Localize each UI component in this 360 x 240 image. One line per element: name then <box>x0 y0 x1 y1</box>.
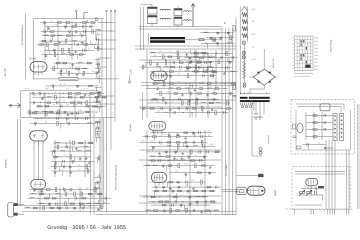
wire in output stage <box>166 182 168 187</box>
phono resistor 2 <box>306 190 312 196</box>
centre bus 5 <box>235 18 237 215</box>
capacitor (vertical) in output stage <box>180 205 183 208</box>
coil in left column <box>96 28 101 31</box>
junction node in IF amplifier lower <box>166 112 167 113</box>
resistor in IF amplifier <box>194 71 198 73</box>
coil in AF bottom <box>25 206 30 209</box>
wire in left column <box>96 64 98 69</box>
ground in ratio detector <box>206 68 209 71</box>
svg-text:30pF: 30pF <box>45 87 50 90</box>
svg-text:MW und UKW abgeschirmt: MW und UKW abgeschirmt <box>115 165 118 190</box>
tone unit left part 1 <box>293 124 296 129</box>
coil in AF driver <box>151 155 156 158</box>
ground in UKW tuner lower <box>76 73 79 76</box>
resistor (vertical) in left column lower <box>98 156 100 160</box>
resistor in UKW tuner lower <box>63 62 67 64</box>
wire in IF amplifier <box>140 66 215 68</box>
capacitor in left column <box>97 38 99 41</box>
svg-text:25k: 25k <box>149 64 152 67</box>
wire in left column <box>95 36 97 40</box>
capacitor (vertical) in AF middle <box>69 166 72 169</box>
resistor in FM IF block <box>37 105 41 107</box>
svg-text:8n: 8n <box>53 103 55 106</box>
ground in FM IF block <box>41 97 44 100</box>
svg-text:470k: 470k <box>78 109 82 112</box>
centre bus 2 <box>225 28 227 215</box>
table row tick 9 <box>293 64 295 66</box>
capacitor (vertical) in AF middle <box>53 151 56 154</box>
tone row 2 resistor <box>313 122 317 124</box>
capacitor in UKW tuner <box>82 25 84 28</box>
junction node in AF driver <box>168 160 169 161</box>
tube EF89 grids <box>154 73 165 79</box>
heater chain right wire <box>243 45 245 83</box>
dial lamp circle 1 <box>242 41 245 44</box>
ground in AF driver <box>168 133 171 136</box>
resistor (vertical) in AF bottom <box>43 206 45 210</box>
voltage selector contact 1 <box>241 105 243 107</box>
phono tube dark anode <box>318 186 324 188</box>
voltage selector pin 2 <box>242 103 244 105</box>
resistor in output stage <box>206 210 210 212</box>
resistor in AF driver <box>191 160 195 162</box>
capacitor (vertical) in IF amplifier lower <box>213 99 216 102</box>
svg-text:100: 100 <box>195 69 198 72</box>
resistor (vertical) in IF amplifier lower <box>182 101 184 105</box>
coil in output stage <box>201 195 206 198</box>
capacitor in UKW tuner <box>90 25 92 28</box>
tuner bottom label box <box>59 77 78 80</box>
svg-text:EABC80: EABC80 <box>5 158 8 168</box>
FM block vertical wire 5 <box>89 92 91 117</box>
ground in IF amplifier <box>152 71 155 74</box>
resistor in AF driver <box>167 142 171 144</box>
wire in IF amplifier <box>149 52 208 54</box>
table row tick 3 <box>293 43 295 45</box>
capacitor in AF bottom <box>105 197 107 200</box>
fuse circle 2 <box>243 85 245 87</box>
wire in left column <box>98 59 100 64</box>
capacitor in IF amplifier lower <box>179 98 181 101</box>
AF middle vertical wire 2 <box>69 140 71 177</box>
svg-text:220: 220 <box>191 179 194 182</box>
wire in IF amplifier lower <box>202 108 204 113</box>
wire in left column <box>97 44 99 49</box>
capacitor (vertical) in AF driver <box>186 146 189 149</box>
junction dot <box>114 39 115 40</box>
wire in AM input rows <box>231 38 233 43</box>
ground in AF driver <box>184 137 187 140</box>
wire in left column <box>99 102 101 107</box>
wire in FM IF block <box>26 111 98 113</box>
resistor in output stage <box>162 204 166 206</box>
capacitor in IF amplifier <box>189 61 191 64</box>
tone unit column wire 2 <box>313 112 315 140</box>
AF bottom vertical wire 3 <box>79 188 81 211</box>
junction node in IF amplifier lower <box>225 83 226 84</box>
dipole arrow symbol <box>9 103 21 108</box>
tube ECC85 pins <box>35 72 42 76</box>
capacitor in output stage <box>172 204 174 207</box>
bridge terminal left <box>249 76 253 78</box>
resistor in AF bottom <box>71 203 75 205</box>
resistor (vertical) in AF middle <box>87 169 89 173</box>
wire in UKW tuner <box>41 53 86 55</box>
resistor near chain <box>233 26 235 32</box>
IF horizontal wire 2 <box>139 106 222 108</box>
svg-text:5k: 5k <box>208 134 210 137</box>
FM block vertical wire 1 <box>29 92 31 117</box>
ground in UKW tuner <box>47 27 50 30</box>
wire in AF driver <box>149 145 215 147</box>
connector contact B5 <box>341 132 343 134</box>
coil in AF driver <box>145 164 150 167</box>
tube EL95 envelope <box>151 172 166 182</box>
IF coil 1a <box>160 9 170 10</box>
dropper resistor wavy <box>243 61 246 79</box>
resistor (vertical) in AF bottom <box>74 192 76 196</box>
wire in left column lower <box>99 173 101 177</box>
wire in IF amplifier <box>207 53 209 57</box>
bus wire c <box>110 12 112 150</box>
wire in left column lower <box>96 138 98 143</box>
tone unit dashed box <box>291 100 355 155</box>
capacitor in AF top row <box>57 112 59 115</box>
heater filament 2 <box>242 20 247 24</box>
ground in output stage <box>169 187 172 190</box>
junction node in output stage <box>197 205 198 206</box>
capacitor in ratio detector <box>232 56 234 59</box>
svg-text:3k: 3k <box>205 96 207 99</box>
ground in UKW tuner lower <box>71 63 74 66</box>
resistor in AF bottom <box>46 189 50 191</box>
bottom bus wire 1 <box>22 211 236 213</box>
tone unit row wire 3 <box>306 129 333 131</box>
resistor in output stage <box>174 196 178 198</box>
table row line 3 <box>295 45 314 47</box>
coil in AF driver <box>167 144 172 147</box>
wire in left column lower <box>95 176 102 178</box>
svg-text:220: 220 <box>192 134 195 137</box>
loudness wire 4 <box>334 140 336 209</box>
svg-text:Taste: Taste <box>314 68 318 71</box>
svg-text:Taste: Taste <box>314 47 318 50</box>
capacitor in UKW tuner <box>84 30 86 33</box>
bus stub row 4 <box>98 48 115 50</box>
ground in AF driver <box>176 133 179 136</box>
bus wire b top <box>106 10 108 12</box>
resistor (vertical) in UKW tuner <box>92 30 94 34</box>
capacitor in IF amplifier lower <box>165 102 167 105</box>
resistor (vertical) in FM IF block <box>55 95 57 99</box>
resistor in output stage <box>165 201 169 203</box>
tone unit row wire 1 <box>306 115 333 117</box>
capacitor in IF amplifier <box>173 61 175 64</box>
wire in left column <box>96 97 98 102</box>
dial lamp circle 3 <box>242 56 245 59</box>
resistor in IF amplifier lower <box>215 88 219 90</box>
resistor in left column <box>96 101 100 103</box>
resistor in driver-output gap <box>197 172 201 174</box>
junction node in FM IF block <box>40 102 41 103</box>
dial lamp cross 3 <box>243 56 245 58</box>
ground in AF driver <box>158 152 161 155</box>
coil in AF driver <box>158 155 163 158</box>
AF horizontal wire 1 <box>139 149 221 151</box>
table row line 8 <box>295 63 314 65</box>
wire in AM input rows <box>232 34 234 38</box>
wire in phono unit interior <box>310 188 312 194</box>
wire in left column <box>95 31 97 35</box>
connector contact A6 <box>334 136 336 138</box>
ground in IF amplifier lower <box>211 108 214 111</box>
capacitor (vertical) in AF bottom <box>63 189 66 192</box>
resistor in AF bottom <box>45 197 49 199</box>
wire in left column lower <box>95 121 101 123</box>
svg-text:6,3V: 6,3V <box>252 33 257 36</box>
ground in AF bottom <box>97 208 100 211</box>
ground in ratio detector <box>223 72 226 75</box>
capacitor in output stage <box>205 200 207 203</box>
resistor in IF amplifier <box>179 62 183 64</box>
resistor in UKW tuner <box>50 31 54 33</box>
capacitor in AF driver <box>203 145 205 148</box>
table mark <box>301 58 302 60</box>
capacitor (vertical) in AM input rows <box>220 37 223 40</box>
capacitor in IF amplifier <box>162 74 164 77</box>
junction node in left column <box>98 96 99 97</box>
resistor in FM IF block <box>86 105 90 107</box>
capacitor in AF top row <box>77 112 79 115</box>
coil in output stage <box>196 195 201 198</box>
resistor (vertical) in UKW tuner <box>47 43 49 47</box>
capacitor in AF driver <box>200 159 202 162</box>
loudness wire 3 <box>331 140 333 209</box>
capacitor (vertical) in UKW tuner <box>68 31 71 34</box>
voltage selector pin 6 <box>250 103 252 105</box>
AF bottom vertical wire 4 <box>99 188 101 211</box>
svg-text:10n: 10n <box>192 81 195 84</box>
resistor in FM IF block <box>77 93 81 95</box>
resistor (vertical) in IF amplifier lower <box>215 111 217 115</box>
speaker wire <box>18 204 24 206</box>
svg-text:87,5-100MHz: 87,5-100MHz <box>225 164 228 176</box>
AF horizontal wire 3 <box>139 195 221 197</box>
ground in AF middle <box>69 171 72 174</box>
resistor in output stage <box>159 201 163 203</box>
loudness wire 2 <box>328 140 330 209</box>
magic eye envelope <box>247 186 265 195</box>
wire in ratio detector <box>212 68 214 73</box>
capacitor in AF driver <box>169 135 171 138</box>
resistor in FM IF block <box>102 96 106 98</box>
wire in AF top row <box>60 123 62 128</box>
mains transformer core upper right <box>249 97 270 99</box>
svg-text:50: 50 <box>99 195 101 198</box>
pickup connector circle 1 <box>259 148 262 151</box>
capacitor (vertical) in AF bottom <box>73 207 76 210</box>
resistor (vertical) in AF bottom <box>81 192 83 196</box>
wire in UKW tuner <box>79 32 81 36</box>
capacitor in IF amplifier <box>203 74 205 77</box>
svg-text:10n: 10n <box>167 194 170 197</box>
wire in AF bottom <box>37 203 110 205</box>
connector contact A3 <box>334 124 336 126</box>
wire in left column <box>95 87 97 92</box>
ground in AF middle <box>85 157 88 160</box>
resistor (vertical) in AF middle <box>54 165 56 169</box>
stub wire <box>333 209 335 215</box>
resistor (vertical) in ratio detector <box>226 51 228 55</box>
tuner vertical wire 1 <box>44 21 46 60</box>
tone unit column wire 3 <box>321 112 323 140</box>
capacitor in IF amplifier lower <box>174 111 176 114</box>
bus wire d top <box>114 10 116 12</box>
resistor in FM IF block <box>49 111 53 113</box>
resistor in IF amplifier <box>210 75 214 77</box>
capacitor in ratio detector <box>198 66 200 69</box>
wire in AF bottom <box>30 189 98 191</box>
wire in AF bottom <box>98 200 100 204</box>
coil in FM IF block <box>34 110 39 113</box>
AF vertical wire 1 <box>146 130 148 214</box>
wire in left column <box>97 45 99 49</box>
resistor in output stage <box>154 210 158 212</box>
magic eye screen line <box>258 187 260 195</box>
FM block vertical wire 4 <box>74 92 76 117</box>
capacitor in IF amplifier lower <box>161 107 163 110</box>
AF bottom vertical wire 2 <box>59 188 61 211</box>
coil in AF middle <box>84 145 89 148</box>
wire in AF middle <box>53 142 94 144</box>
resistor (vertical) in IF amplifier <box>165 61 167 65</box>
resistor (vertical) in IF amplifier lower <box>201 106 203 110</box>
AF middle vertical wire 1 <box>54 140 56 177</box>
coil in AF bottom <box>39 202 44 205</box>
coil in FM IF block <box>47 95 52 98</box>
svg-text:1n: 1n <box>78 168 80 171</box>
wire in IF amplifier <box>165 71 167 76</box>
svg-text:19V: 19V <box>252 20 256 23</box>
capacitor (vertical) in IF amplifier <box>169 75 172 78</box>
wire in IF amplifier lower <box>191 84 193 89</box>
ground in AF middle <box>54 171 57 174</box>
svg-text:ECC85: ECC85 <box>4 68 7 76</box>
wire to output section <box>251 100 253 156</box>
svg-text:3k: 3k <box>88 47 90 50</box>
tone unit small tube <box>297 123 303 132</box>
capacitor in FM IF block <box>60 105 62 108</box>
stub wire <box>312 209 314 215</box>
heater chain left wire <box>239 6 241 95</box>
coil in UKW tuner <box>58 34 63 37</box>
mains lead 3 <box>263 102 265 114</box>
svg-text:220: 220 <box>80 103 83 106</box>
resistor (vertical) in IF amplifier <box>177 51 179 55</box>
svg-text:10n: 10n <box>177 81 180 84</box>
capacitor in IF amplifier lower <box>208 111 210 114</box>
IF can 2b <box>174 17 182 25</box>
resistor in AF bottom <box>88 193 92 195</box>
wire in AF driver <box>183 142 185 147</box>
wire in output stage <box>143 196 208 198</box>
svg-text:100: 100 <box>184 163 187 166</box>
wire in AF bottom <box>48 194 50 199</box>
ground in UKW tuner <box>45 54 48 57</box>
phono resistor 2 body <box>307 192 312 194</box>
coil in IF amplifier <box>207 65 212 68</box>
wire in IF amplifier lower <box>188 89 190 94</box>
IF vertical wire 3 <box>195 50 197 118</box>
wire in output stage <box>153 190 216 192</box>
resistor (vertical) in IF amplifier lower <box>162 97 164 101</box>
wire in UKW tuner lower <box>53 62 92 64</box>
coil in AF middle <box>77 149 82 152</box>
IF vertical wire 4 <box>207 55 209 118</box>
coil in IF amplifier <box>156 65 161 68</box>
junction node in IF amplifier <box>187 56 188 57</box>
ground in output stage <box>189 202 192 205</box>
mains lead 2 <box>259 102 261 117</box>
resistor in FM IF block <box>45 105 49 107</box>
magic eye socket inner <box>240 190 245 193</box>
wire in output stage <box>187 207 189 211</box>
capacitor (vertical) in UKW tuner <box>53 50 56 53</box>
wire in AF driver <box>140 141 208 143</box>
heater chain top peak <box>242 7 248 12</box>
capacitor (vertical) in ratio detector <box>189 57 192 60</box>
coil in IF amplifier lower <box>216 101 221 104</box>
svg-text:8n: 8n <box>202 54 204 57</box>
wire in IF amplifier <box>146 62 210 64</box>
mixer node <box>95 18 98 21</box>
wire in IF amplifier lower <box>146 88 228 90</box>
capacitor (vertical) in IF amplifier lower <box>229 93 232 96</box>
svg-text:100: 100 <box>162 86 165 89</box>
wire in tone unit interior <box>306 142 308 145</box>
coil in AM input rows <box>204 31 209 34</box>
resistor in AF driver <box>153 136 157 138</box>
dial lamp cross 2 <box>243 52 245 54</box>
capacitor in AF top row <box>86 117 88 120</box>
stub wire <box>293 209 295 215</box>
svg-text:5k: 5k <box>147 86 149 89</box>
wire in left column <box>96 63 101 65</box>
svg-text:(von vorn gesehen): (von vorn gesehen) <box>294 75 311 78</box>
wire in left column <box>95 92 101 94</box>
junction node in FM IF block <box>63 93 64 94</box>
wire in output stage <box>189 202 191 207</box>
fuse circle 1 <box>243 83 245 85</box>
resistor in AF driver <box>168 165 172 167</box>
coil in AM input rows <box>227 42 232 45</box>
wire in phono unit interior <box>299 194 324 196</box>
capacitor (vertical) in IF amplifier lower <box>142 108 145 111</box>
resistor (vertical) in AF middle <box>70 155 72 159</box>
coil in UKW tuner <box>44 34 49 37</box>
capacitor (vertical) in AF driver <box>187 156 190 159</box>
resistor (vertical) in AF driver <box>191 150 193 154</box>
table row line 6 <box>295 56 314 58</box>
antenna lead-in wire <box>25 13 27 79</box>
tube EL84 envelope <box>31 180 46 190</box>
wire in AF driver <box>143 165 214 167</box>
svg-text:EM85: EM85 <box>274 189 277 196</box>
wire in IF amplifier <box>151 75 215 77</box>
ground in FM IF block <box>84 93 87 96</box>
wire in phono unit interior <box>322 195 324 201</box>
svg-text:2M: 2M <box>156 100 159 103</box>
